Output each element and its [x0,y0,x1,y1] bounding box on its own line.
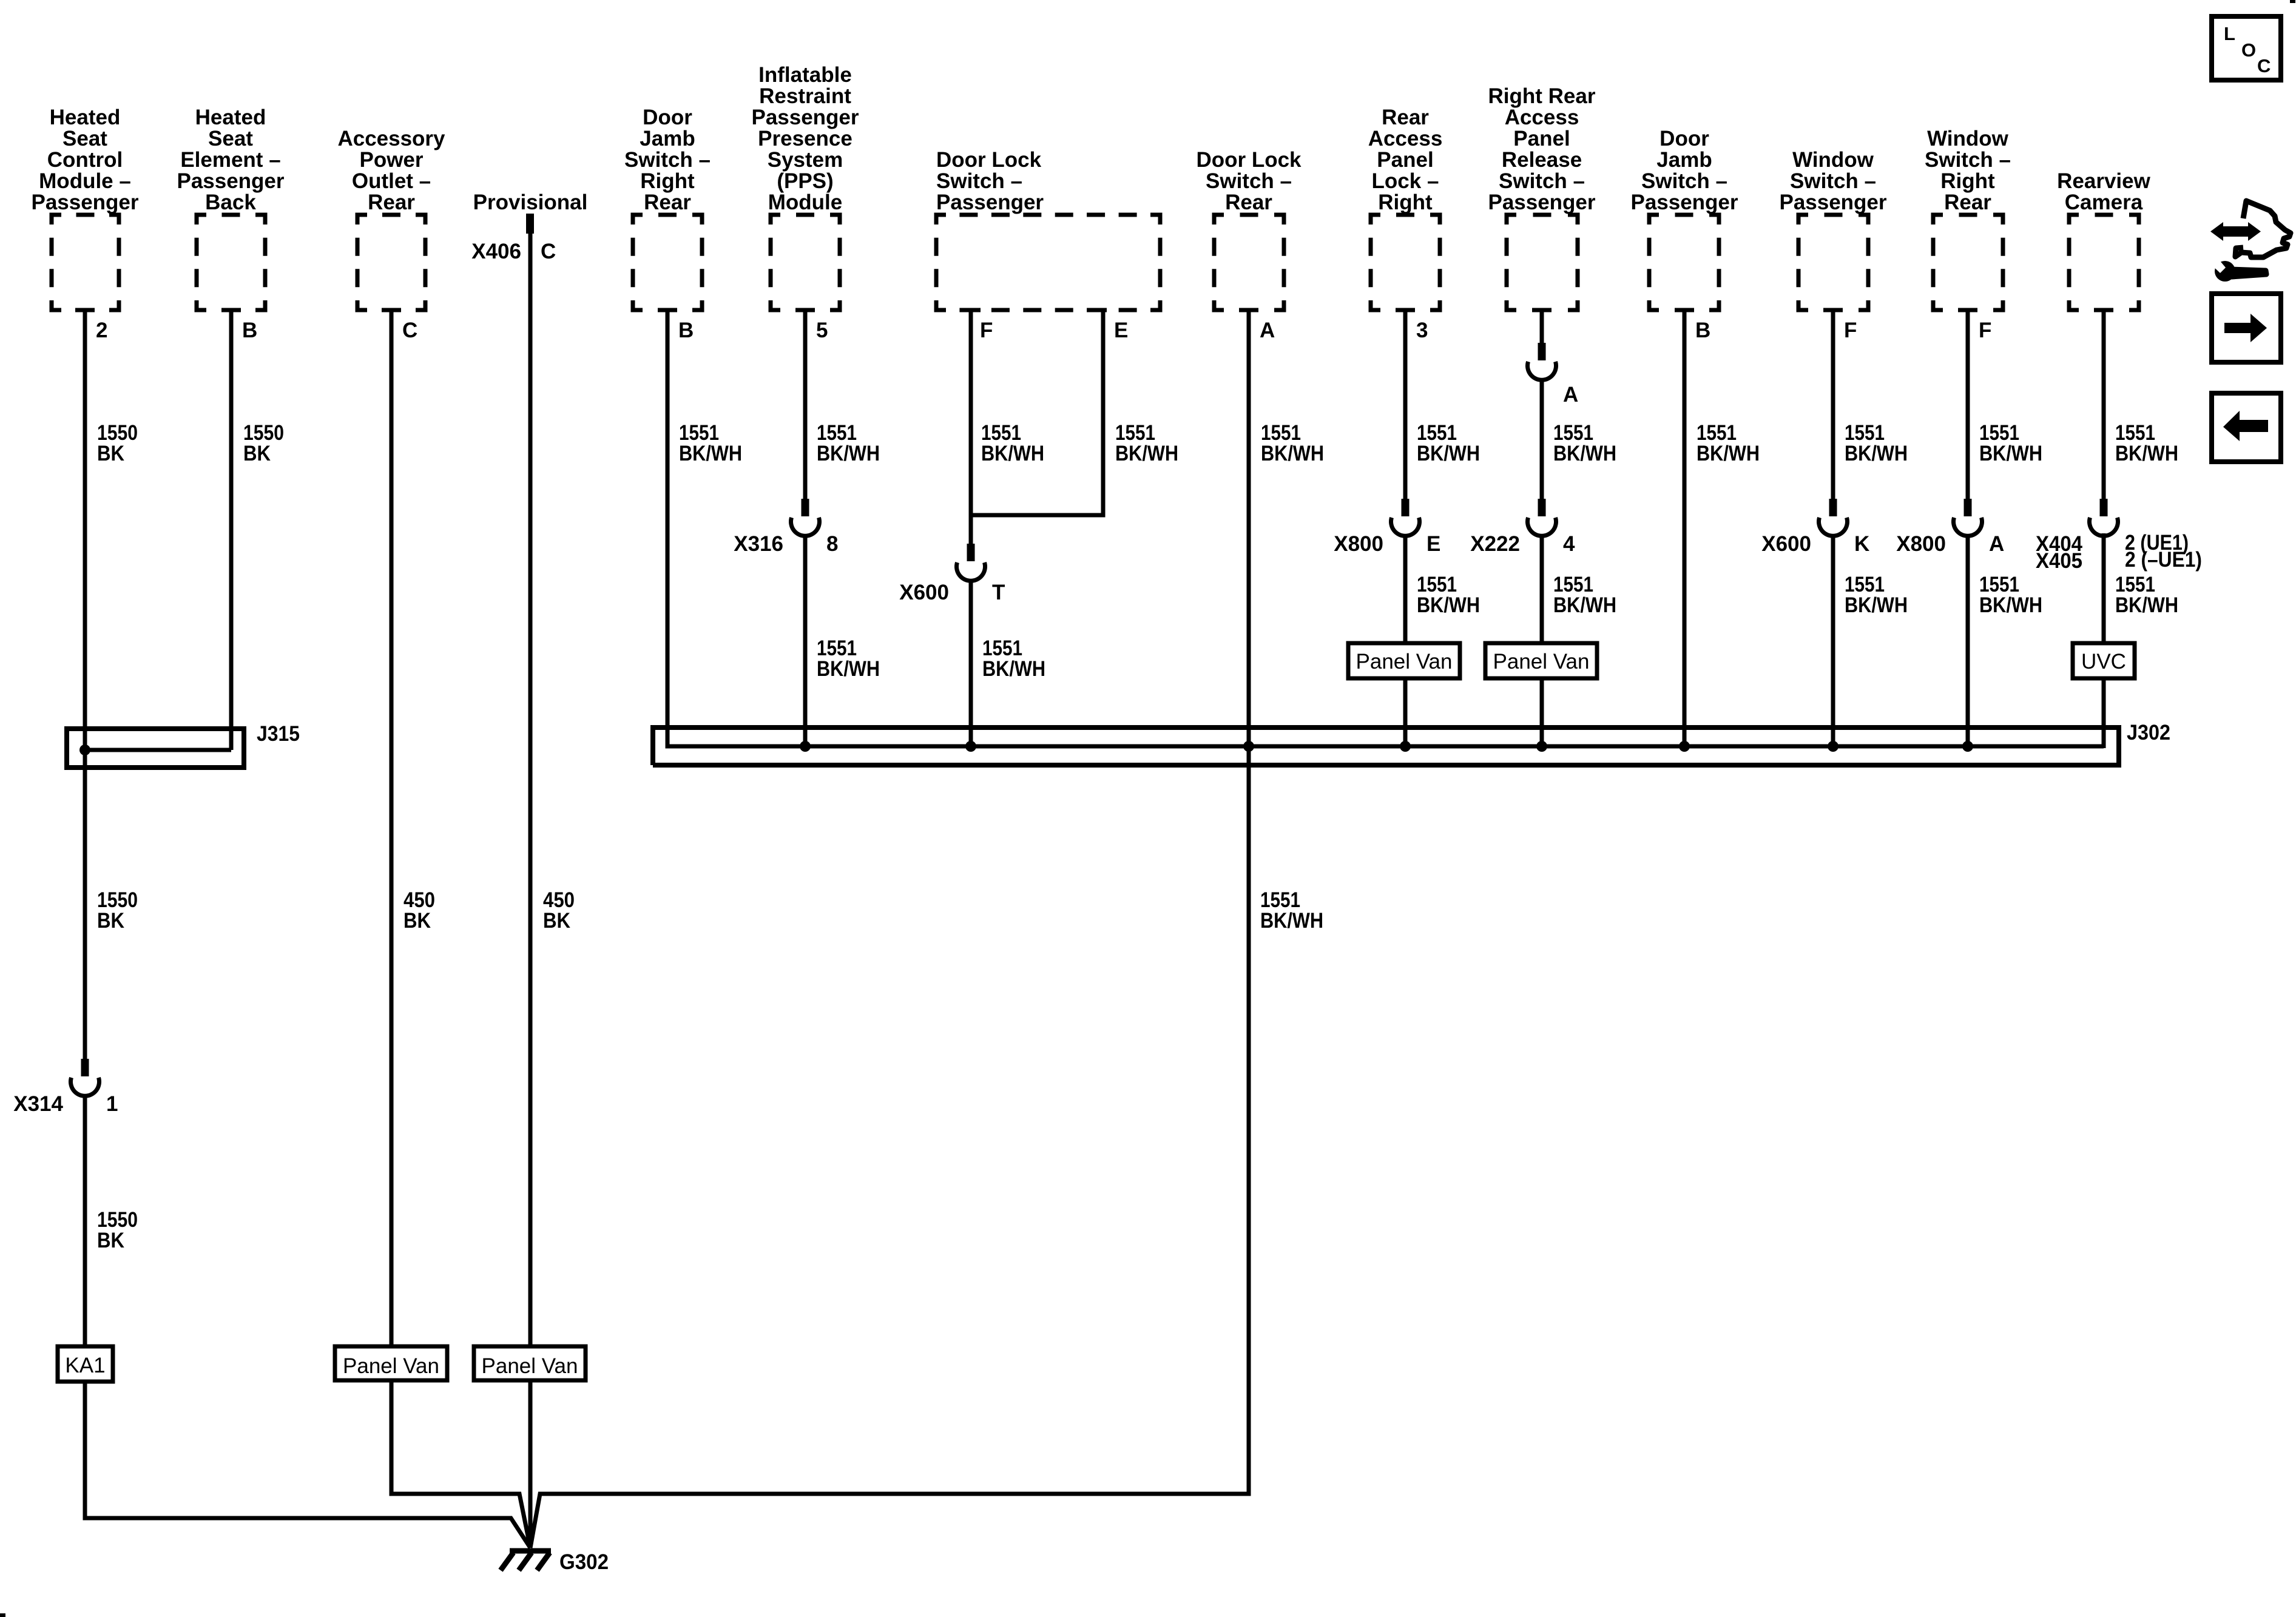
wire from Panel Van box to J302 [1403,678,1408,746]
svg-text:X800: X800 [1896,532,1946,556]
svg-text:Panel Van: Panel Van [1356,650,1453,673]
svg-text:F: F [980,319,993,342]
junction dot J302 at A wire [1243,741,1254,752]
pin B tab of Door Jamb Switch Passenger [1675,308,1694,312]
junction dot J302 at window RR wire [1962,741,1973,752]
component box Window Switch - Passenger (dashed) [1798,215,1868,310]
svg-text:B: B [1695,319,1710,342]
wire 1551 BK/WH from Rearview Camera to X404/X405 [2102,310,2106,499]
component box Rearview Camera (dashed) [2069,215,2139,310]
svg-text:KA1: KA1 [65,1354,105,1377]
pin 3 tab of Rear Access Panel Lock [1396,308,1415,312]
wire from connector A to X222 [1540,380,1544,499]
Provisional terminal stub [526,214,534,234]
svg-text:X404X405: X404X405 [2036,532,2082,573]
wire from UVC box to J302 bus end [2102,678,2106,748]
ground symbol G302 [510,1548,551,1554]
wire from X404/X405 to UVC box [2102,533,2106,643]
component box Door Jamb Switch - Right Rear (dashed) [633,215,702,310]
svg-text:1: 1 [106,1092,118,1116]
svg-text:F: F [1844,319,1857,342]
component box Window Switch - Right Rear (dashed) [1933,215,2003,310]
svg-text:X316: X316 [734,532,783,556]
svg-text:X406: X406 [471,240,521,263]
junction dot J302 at PPS wire [800,741,811,752]
component box Inflatable Restraint PPS Module (dashed) [771,215,840,310]
junction dot J302 at door jamb passenger wire [1679,741,1690,752]
svg-text:J302: J302 [2127,721,2170,744]
wire 1551 BK/WH from Door Jamb Switch RR pin B to J302 [667,310,680,746]
svg-text:Panel Van: Panel Van [1493,650,1590,673]
svg-text:3: 3 [1416,319,1428,342]
inline connector X600 pin K [1829,499,1837,516]
inline connector X314 pin 1 [81,1059,89,1076]
J315 bus conductor [85,748,231,752]
svg-text:B: B [242,319,257,342]
svg-text:RearviewCamera: RearviewCamera [2057,169,2150,214]
junction dot J302 at F wire [965,741,976,752]
svg-text:J315: J315 [257,722,300,746]
splice pack J302 housing [653,727,2119,765]
svg-text:8: 8 [826,532,838,556]
inline connector X600 pin T [967,544,975,561]
option box Panel Van (Provisional wire) [474,1346,586,1380]
svg-text:X314: X314 [13,1092,63,1116]
wire 1551 BK/WH from Rear Access Panel Lock pin 3 to X800 [1403,310,1408,499]
svg-text:450BK: 450BK [543,888,575,933]
pin F tab of Window Switch Passenger [1823,308,1843,312]
pin B tab of Door Jamb Switch Right Rear [658,308,677,312]
page mark top-right [2290,0,2295,3]
pin tab of Rearview Camera [2094,308,2113,312]
svg-text:4: 4 [1563,532,1575,556]
wire 1551 BK/WH from Door Lock Switch Rear pin A through J302 to ground run [530,310,1249,1548]
svg-text:G302: G302 [559,1550,609,1574]
wire from X600 K to J302 [1831,536,1835,747]
component box Heated Seat Control Module - Passenger (dashed) [52,215,119,310]
power flow icon: double arrow, body outline and wrench [2210,222,2261,241]
svg-text:UVC: UVC [2081,650,2126,673]
svg-text:F: F [1979,319,1991,342]
svg-text:Provisional: Provisional [473,191,588,214]
option box Panel Van (rear access lock wire) [1348,643,1460,678]
svg-text:X222: X222 [1470,532,1520,556]
option box Panel Van (Accessory outlet wire) [335,1346,447,1380]
junction dot J302 at window passenger wire [1828,741,1838,752]
LOC box [2212,16,2281,80]
svg-text:O: O [2241,39,2256,61]
svg-text:Panel Van: Panel Van [343,1354,439,1378]
svg-text:C: C [2257,55,2271,76]
svg-text:A: A [1563,383,1578,407]
wire 1551 BK/WH from X316 to J302 [803,536,808,747]
legend arrow box (left arrow) [2212,393,2281,462]
pin C tab of Accessory Power Outlet [382,308,401,312]
svg-text:K: K [1854,532,1869,556]
svg-text:450BK: 450BK [403,888,435,933]
wire 1551 BK/WH from Door Jamb Switch Passenger pin B to J302 [1683,310,1687,746]
wire 1551 BK/WH from pin F down [969,310,973,544]
pin tab of RR Access Panel Release Switch [1532,308,1551,312]
svg-text:2: 2 [96,319,107,342]
wire from X222 to Panel Van box [1540,536,1544,644]
wire from Panel Van box to J302 [1540,678,1544,746]
svg-text:Right RearAccessPanelReleaseSw: Right RearAccessPanelReleaseSwitch –Pass… [1488,84,1595,214]
pin 5 tab of PPS Module [795,308,815,312]
inline connector X222 pin 4 [1538,499,1546,516]
wire 1551 BK/WH from Window Switch RR pin F to X800 [1966,310,1970,499]
svg-text:Panel Van: Panel Van [482,1354,578,1378]
wire 450 BK Provisional X406 C down [528,234,533,1346]
component box Accessory Power Outlet - Rear (dashed) [357,215,425,310]
component box Door Lock Switch - Passenger (dashed) [936,215,1160,310]
wire from Panel Van box to ground point [528,1380,533,1548]
splice pack J315 housing [67,729,244,768]
svg-text:5: 5 [816,319,828,342]
wire 450 BK from Accessory Power Outlet pin C to ground run [390,310,394,1346]
svg-text:T: T [992,581,1005,604]
J302 bus conductor [667,744,2104,749]
svg-text:E: E [1114,319,1128,342]
fuse KA1 box [58,1346,113,1382]
svg-text:E: E [1427,532,1440,556]
pin B tab of Heated Seat Element [221,308,241,312]
svg-text:C: C [402,319,417,342]
option box UVC [2073,643,2135,678]
svg-text:WindowSwitch –Passenger: WindowSwitch –Passenger [1779,148,1886,214]
component box Door Jamb Switch - Passenger (dashed) [1649,215,1719,310]
page mark bottom-left [0,1613,5,1617]
wire 1551 BK/WH from PPS pin 5 to X316 [803,310,808,499]
svg-text:B: B [678,319,694,342]
component box Rear Access Panel Lock - Right (dashed) [1371,215,1440,310]
wire from Panel Van box to ground [391,1380,530,1548]
inline connector X316 pin 8 [802,499,809,516]
svg-text:C: C [541,240,556,263]
junction dot J315 at wire 1 [79,744,90,755]
wire 1550 BK from X314 to KA1 [83,1096,87,1348]
junction dot J302 at RR release wire [1536,741,1547,752]
svg-text:A: A [1989,532,2004,556]
wire 1550 BK from Heated Seat Element pin B to J315 [229,310,234,750]
wire 1551 BK/WH from pin E down and left to join pin F wire [971,310,1103,544]
wire from X800 E to Panel Van box [1403,536,1408,644]
svg-text:A: A [1260,319,1275,342]
pin E tab of Door Lock Switch Passenger [1087,308,1107,312]
pin 2 tab of Heated Seat Control Module [75,308,95,312]
option box Panel Van (RR release wire) [1485,643,1597,678]
pin F tab of Window Switch Right Rear [1958,308,1977,312]
junction dot J302 at rear access lock wire [1400,741,1411,752]
svg-text:L: L [2224,23,2235,44]
pin A tab of Door Lock Switch Rear [1239,308,1258,312]
pin F tab of Door Lock Switch Passenger [961,308,981,312]
wire 1551 BK/WH from RR Access Release Switch to connector A [1540,310,1544,343]
legend arrow box (right arrow) [2212,294,2281,362]
wire 1551 BK/WH from Window Switch Passenger pin F to X600 [1831,310,1835,499]
wire 1551 BK/WH from X600 T to J302 [969,581,973,747]
svg-text:X600: X600 [1761,532,1811,556]
svg-text:X800: X800 [1334,532,1383,556]
component box Heated Seat Element - Passenger Back (dashed) [197,215,265,310]
inline connector X404/X405 pin 2 [2100,499,2108,516]
inline connector connector pin A (RR release) [1538,343,1546,360]
component box Door Lock Switch - Rear (dashed) [1214,215,1284,310]
component box Right Rear Access Panel Release Switch - Passenger (dashed) [1507,215,1578,310]
wire from X800 A to J302 [1966,536,1970,747]
svg-text:X600: X600 [899,581,949,604]
wire 1550 BK from Heated Seat Control Module pin 2 down through J315 [83,310,87,1059]
wire from KA1 to ground run [85,1382,530,1548]
inline connector X800 pin E [1402,499,1410,516]
inline connector X800 pin A [1964,499,1972,516]
